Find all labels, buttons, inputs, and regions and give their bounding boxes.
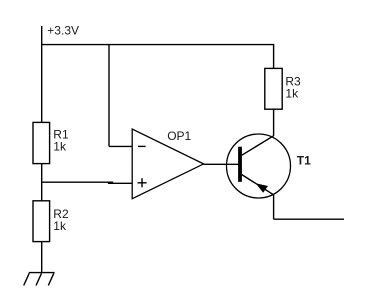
wire OP1 output to T1 base: [204, 163, 239, 165]
resistor R1: [33, 122, 50, 163]
plus sign (OP1 non-inverting input): [138, 178, 147, 187]
wire feedback vertical from rail: [108, 45, 110, 147]
wire to + input (right segment): [108, 182, 132, 184]
ground: [24, 273, 55, 286]
wire top rail: [42, 44, 275, 46]
op-amp OP1: [132, 129, 203, 199]
wire emitter out right: [274, 218, 344, 220]
svg-text:1k: 1k: [53, 219, 67, 233]
svg-text:1k: 1k: [285, 87, 299, 101]
transistor T1 base bar: [238, 147, 242, 182]
wire R3 to rail: [273, 45, 275, 69]
wire left vertical to R1: [41, 45, 43, 123]
svg-text:OP1: OP1: [167, 129, 191, 143]
wire feedback to - input: [109, 145, 132, 147]
svg-text:T1: T1: [297, 153, 311, 167]
wire junction to + input (left segment): [42, 181, 114, 183]
svg-text:+3.3V: +3.3V: [47, 23, 79, 37]
svg-text:1k: 1k: [53, 139, 67, 153]
resistor R2: [33, 201, 50, 242]
wire R2 to ground: [41, 242, 43, 273]
transistor T1 emitter arrow: [256, 183, 268, 193]
wire emitter down: [273, 195, 275, 219]
transistor T1 collector line: [242, 136, 274, 155]
transistor T1 emitter line: [242, 175, 274, 195]
transistor T1 body circle: [227, 134, 291, 198]
minus sign (OP1 inverting input): [138, 145, 146, 147]
wire collector to R3: [273, 109, 275, 136]
resistor R3: [265, 68, 282, 109]
wire R1 to R2: [41, 164, 43, 201]
power stub +3.3V: [41, 26, 43, 45]
